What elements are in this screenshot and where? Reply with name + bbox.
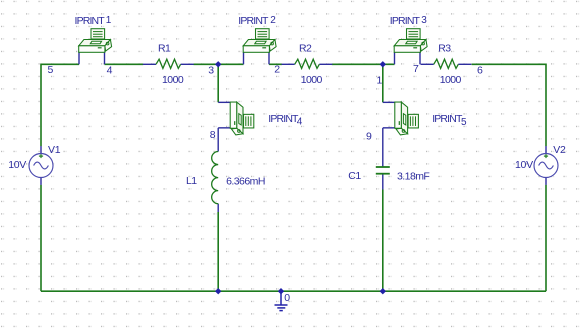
- svg-text:R2: R2: [299, 43, 312, 55]
- printer U4 IPRINT4 (rotated): [218, 102, 254, 135]
- svg-text:L1: L1: [186, 175, 197, 187]
- svg-text:5: 5: [461, 117, 467, 128]
- voltage source V1: [29, 146, 53, 185]
- svg-text:2: 2: [270, 15, 276, 26]
- inductor L1: [212, 152, 219, 204]
- wire top rail segment 1: [41, 64, 79, 146]
- svg-text:1000: 1000: [301, 74, 323, 86]
- wire node3 down to IPRINT4: [217, 64, 219, 102]
- svg-text:IPRINT: IPRINT: [432, 113, 463, 125]
- junction node 3: [215, 61, 221, 67]
- junction bottom right: [380, 288, 386, 294]
- junction node 1: [380, 61, 386, 67]
- wire top between R1 and printer2: [194, 63, 244, 65]
- printer U3 IPRINT3: [394, 29, 427, 65]
- wire top between printer1 and R1: [105, 63, 144, 65]
- svg-text:IPRINT: IPRINT: [238, 15, 269, 27]
- svg-text:4: 4: [297, 117, 303, 128]
- wire C1 to bottom rail: [382, 174, 384, 190]
- svg-text:7: 7: [413, 63, 419, 75]
- junction ground tap: [278, 288, 284, 294]
- svg-text:3.18mF: 3.18mF: [397, 171, 429, 183]
- wire bottom rail: [41, 290, 546, 292]
- svg-text:IPRINT: IPRINT: [390, 15, 421, 27]
- printer U5 IPRINT5 (rotated): [383, 102, 419, 135]
- wire IPRINT4 to L1: [217, 128, 219, 152]
- svg-text:1: 1: [106, 15, 112, 26]
- capacitor C1: [376, 167, 390, 174]
- svg-text:5: 5: [48, 64, 54, 76]
- wire IPRINT5 to C1: [382, 128, 384, 167]
- svg-text:R3: R3: [438, 43, 451, 55]
- wire L1 to bottom rail: [217, 204, 219, 212]
- svg-text:4: 4: [107, 65, 113, 77]
- resistor R3: [421, 59, 472, 68]
- svg-text:2: 2: [274, 63, 280, 75]
- wire node1 down to IPRINT5: [382, 64, 384, 102]
- svg-text:10V: 10V: [8, 159, 26, 171]
- wire left rail lower: [40, 185, 42, 291]
- voltage source V2: [534, 146, 558, 185]
- svg-text:IPRINT: IPRINT: [268, 113, 299, 125]
- resistor R1: [143, 59, 194, 68]
- svg-text:1: 1: [377, 74, 383, 86]
- svg-text:R1: R1: [158, 43, 171, 55]
- wire top between R2 and printer3: [332, 63, 395, 65]
- ground symbol: [275, 291, 288, 310]
- svg-text:C1: C1: [348, 170, 361, 182]
- svg-text:V1: V1: [48, 144, 61, 156]
- wire top between printer2 and R2: [269, 63, 282, 65]
- svg-text:0: 0: [284, 292, 290, 304]
- svg-text:6: 6: [477, 65, 483, 77]
- junction bottom left: [215, 288, 221, 294]
- svg-text:9: 9: [366, 130, 372, 142]
- resistor R2: [282, 59, 333, 68]
- svg-text:3: 3: [421, 15, 427, 26]
- wire right rail lower: [545, 185, 547, 291]
- svg-text:1000: 1000: [440, 74, 462, 86]
- wire top right rail: [472, 64, 546, 146]
- svg-text:8: 8: [210, 129, 216, 141]
- svg-text:V2: V2: [553, 144, 566, 156]
- printer U1 IPRINT1: [79, 29, 112, 65]
- svg-text:6.366mH: 6.366mH: [226, 175, 265, 187]
- printer U2 IPRINT2: [243, 29, 276, 65]
- svg-text:1000: 1000: [162, 74, 184, 86]
- svg-text:IPRINT: IPRINT: [75, 15, 106, 27]
- svg-text:10V: 10V: [515, 159, 533, 171]
- svg-text:3: 3: [208, 65, 214, 77]
